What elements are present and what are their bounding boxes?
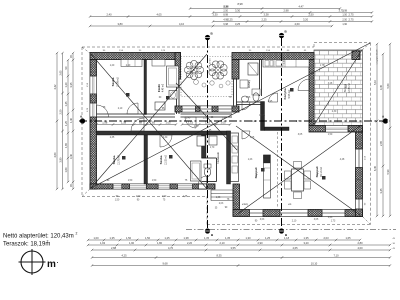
- svg-text:4,47: 4,47: [298, 5, 304, 9]
- svg-text:12,70 m2: 12,70 m2: [118, 154, 121, 165]
- svg-text:2,03: 2,03: [219, 203, 224, 205]
- svg-text:3,25: 3,25: [235, 22, 241, 26]
- svg-text:1,50: 1,50: [162, 196, 167, 198]
- section line A-A horizontal: [79, 120, 390, 122]
- svg-text:5,90: 5,90: [386, 169, 390, 175]
- svg-text:8,98: 8,98: [237, 2, 243, 6]
- svg-text:1,40: 1,40: [186, 118, 191, 120]
- section line A-A overlay: [79, 120, 390, 122]
- svg-text:12,02 m2: 12,02 m2: [165, 154, 168, 165]
- svg-text:7,10: 7,10: [333, 254, 339, 258]
- courtyard left wall upper: [175, 53, 181, 80]
- svg-text:1,05: 1,05: [165, 121, 171, 125]
- terrace sliding door: [326, 126, 349, 133]
- courtyard bottom wall: [175, 106, 239, 112]
- svg-text:Zuhany: Zuhany: [248, 79, 251, 88]
- svg-text:1,30: 1,30: [194, 126, 199, 128]
- courtyard right wall: [232, 60, 239, 80]
- svg-text:m: m: [47, 259, 56, 270]
- svg-text:1,73: 1,73: [331, 221, 336, 223]
- shower courtyard bathroom: [248, 63, 258, 75]
- svg-text:2,50: 2,50: [308, 13, 314, 17]
- wc cell walls: [202, 157, 217, 159]
- corridor top wall under courtyard: [181, 113, 233, 115]
- svg-text:1,50: 1,50: [126, 236, 132, 240]
- svg-text:14,75: 14,75: [259, 115, 265, 117]
- bathroom bottom thin wall: [237, 101, 261, 103]
- svg-text:1,30: 1,30: [245, 236, 251, 240]
- roof line D9 terrace diagonal: [314, 50, 362, 125]
- svg-text:2,25: 2,25: [227, 18, 233, 22]
- svg-text:4,48: 4,48: [340, 159, 345, 161]
- section line B-B right overlay: [281, 38, 283, 231]
- svg-text:2,50: 2,50: [223, 10, 228, 13]
- svg-text:1,50: 1,50: [152, 180, 157, 182]
- svg-text:2,50: 2,50: [59, 109, 63, 115]
- svg-text:2,03: 2,03: [323, 236, 329, 240]
- svg-text:2: 2: [47, 240, 49, 244]
- sideboard etkezo: [264, 155, 271, 198]
- svg-text:Fürdö: Fürdö: [157, 84, 161, 92]
- svg-text:1,00: 1,00: [93, 236, 99, 240]
- svg-text:4,25: 4,25: [121, 254, 127, 258]
- svg-text:9,68: 9,68: [162, 262, 168, 266]
- door left entrance: [97, 105, 109, 117]
- svg-text:3,28: 3,28: [328, 83, 333, 85]
- door room1: [127, 103, 138, 114]
- svg-text:1,50 km: 1,50 km: [210, 58, 212, 66]
- kitchen top counter: [263, 60, 309, 68]
- svg-text:1,70: 1,70: [210, 147, 215, 149]
- corridor bottom wall: [97, 131, 231, 135]
- window bottom room A right: [130, 184, 147, 189]
- svg-text:1,20: 1,20: [203, 118, 208, 120]
- dining table: [285, 162, 311, 199]
- door kitchen-etkezo: [269, 93, 278, 102]
- svg-text:6,98: 6,98: [223, 23, 228, 26]
- roof line D5 hall diagonal: [176, 83, 237, 150]
- svg-text:4,45: 4,45: [379, 84, 383, 90]
- svg-text:2,40: 2,40: [106, 13, 112, 17]
- outer wall bottom-left wing: [90, 184, 215, 189]
- section marker A left: [80, 115, 85, 124]
- svg-text:3,63: 3,63: [260, 219, 265, 221]
- outer wall top-left wing: [90, 53, 181, 60]
- svg-text:3,45: 3,45: [355, 179, 360, 181]
- wc oval: [204, 168, 210, 177]
- svg-text:1,15: 1,15: [250, 137, 255, 139]
- svg-text:1,98: 1,98: [342, 10, 347, 13]
- svg-text:1,35: 1,35: [225, 236, 231, 240]
- room B right wall: [202, 135, 207, 158]
- svg-text:2,35: 2,35: [110, 137, 115, 139]
- door courtyard hall: [185, 117, 196, 128]
- svg-text:1,10: 1,10: [205, 121, 211, 125]
- bathroom-kitchen thin wall: [259, 60, 261, 97]
- window bottom room A left: [113, 184, 122, 189]
- roof overhang dashed outline: [82, 46, 314, 48]
- svg-text:·: ·: [57, 261, 59, 267]
- svg-text:2,40: 2,40: [126, 65, 131, 67]
- section line B-B vertical left: [207, 40, 209, 231]
- courtyard window 1: [182, 106, 196, 112]
- svg-text:4,60: 4,60: [294, 22, 300, 26]
- window living bottom middle: [280, 210, 308, 217]
- svg-text:2,10: 2,10: [118, 108, 123, 110]
- svg-text:Szoba: Szoba: [111, 77, 115, 86]
- wardrobe room1: [121, 60, 142, 67]
- roof line D7 left block diagonal 2: [91, 54, 207, 188]
- tree 1: [184, 60, 203, 79]
- svg-text:1,50: 1,50: [115, 200, 120, 202]
- north symbol circle: [19, 249, 46, 275]
- svg-text:szegélykő 40x20: szegélykő 40x20: [377, 49, 379, 65]
- tree 2: [209, 61, 227, 79]
- window left wall upper: [90, 76, 97, 94]
- section marker A right: [382, 115, 388, 124]
- svg-text:3,38: 3,38: [263, 13, 269, 17]
- kitchen island: [231, 133, 239, 182]
- svg-text:2,50: 2,50: [342, 19, 347, 22]
- svg-text:4,98: 4,98: [223, 19, 228, 22]
- door bottom room B: [160, 135, 172, 147]
- svg-text:Szoba: Szoba: [159, 155, 163, 164]
- entrance steps: [211, 190, 233, 201]
- outer wall top kitchen wing: [232, 53, 314, 60]
- svg-text:1,38: 1,38: [121, 121, 127, 125]
- svg-text:4,65: 4,65: [292, 246, 298, 250]
- kitchen right wall: [309, 60, 314, 126]
- svg-text:2,98: 2,98: [283, 9, 289, 13]
- svg-text:3,05: 3,05: [314, 219, 319, 221]
- outer wall bottom living: [233, 210, 363, 217]
- courtyard window 2: [200, 106, 212, 112]
- svg-text:1,40: 1,40: [222, 118, 227, 120]
- svg-text:2,95: 2,95: [379, 140, 383, 146]
- svg-text:1,35: 1,35: [183, 196, 188, 198]
- roof line D1 left block diagonal: [91, 54, 207, 189]
- svg-text:4,42: 4,42: [53, 84, 57, 90]
- door hall-living: [242, 131, 250, 139]
- corridor top wall: [97, 113, 176, 115]
- svg-text:3,55: 3,55: [230, 246, 236, 250]
- svg-text:Nappali: Nappali: [254, 167, 258, 178]
- svg-text:1,25: 1,25: [265, 236, 271, 240]
- section line B-B left overlay: [207, 40, 209, 231]
- window bottom room B: [158, 184, 170, 189]
- svg-text:2,88: 2,88: [111, 246, 117, 250]
- svg-text:1,50: 1,50: [128, 180, 133, 182]
- svg-text:1,60: 1,60: [64, 167, 68, 173]
- sink wing1: [155, 102, 165, 110]
- svg-text:3,30: 3,30: [212, 13, 218, 17]
- section line B-B vertical right: [281, 38, 283, 231]
- window left wall corridor: [90, 103, 97, 117]
- svg-text:1,40: 1,40: [69, 117, 73, 123]
- svg-text:2,25: 2,25: [252, 121, 257, 123]
- furdo top cabinet: [152, 60, 165, 67]
- svg-text:3,20: 3,20: [303, 241, 309, 245]
- svg-text:1,20: 1,20: [64, 82, 68, 88]
- svg-text:1,50: 1,50: [145, 236, 151, 240]
- svg-text:1,35: 1,35: [303, 236, 309, 240]
- svg-text:1,20: 1,20: [110, 65, 115, 67]
- svg-text:1,38: 1,38: [216, 197, 221, 199]
- living left wall: [233, 184, 240, 216]
- svg-text:1,38: 1,38: [183, 236, 189, 240]
- svg-text:1,75: 1,75: [296, 121, 301, 123]
- window right living lower: [356, 199, 363, 209]
- svg-text:10,10: 10,10: [311, 262, 318, 266]
- svg-text:2,75: 2,75: [348, 13, 354, 17]
- terrace corner post: [352, 51, 360, 60]
- wall hall-living: [227, 131, 231, 184]
- svg-text:1,50: 1,50: [328, 134, 333, 136]
- sink courtyard bathroom: [241, 96, 248, 102]
- svg-text:4,10: 4,10: [179, 22, 185, 26]
- corridor dimension chain: [97, 124, 114, 126]
- svg-text:28,14 m2: 28,14 m2: [320, 166, 323, 177]
- svg-text:2,95: 2,95: [268, 101, 273, 103]
- svg-text:1,80: 1,80: [157, 241, 163, 245]
- wall living-terrace: [309, 126, 363, 133]
- section line C-C bottom horizontal: [186, 229, 396, 231]
- bathtub wing1: [167, 66, 179, 87]
- roof line D4 living diagonal 2: [236, 126, 360, 215]
- wc wing1: [169, 91, 177, 100]
- svg-text:3,80: 3,80: [59, 157, 63, 163]
- svg-text:2,10: 2,10: [219, 241, 225, 245]
- svg-text:1,78: 1,78: [320, 65, 325, 67]
- svg-text:5,10: 5,10: [373, 79, 377, 85]
- svg-text:1,90: 1,90: [342, 23, 347, 26]
- svg-text:1,23: 1,23: [248, 159, 253, 161]
- right dimension chains: [376, 44, 378, 121]
- bottom dimension chains: [88, 239, 104, 241]
- courtyard paving dotted edge: [181, 57, 232, 97]
- window living bottom left: [250, 210, 264, 217]
- svg-text:2,75: 2,75: [348, 18, 354, 22]
- svg-text:3,80: 3,80: [117, 22, 123, 26]
- bathroom left thin wall lower: [233, 79, 235, 106]
- entrance door opening: [198, 184, 206, 189]
- svg-text:1,15: 1,15: [188, 121, 194, 125]
- svg-text:erkély: erkély: [242, 203, 249, 206]
- svg-text:3,05: 3,05: [298, 134, 303, 136]
- etkezo corner wall horizontal: [265, 127, 290, 131]
- section marker B top right: [279, 30, 288, 39]
- roof corner diagonal dashes: [82, 47, 91, 54]
- svg-text:1,98: 1,98: [102, 121, 108, 125]
- svg-text:2: 2: [76, 232, 78, 236]
- window right living upper: [356, 149, 363, 168]
- window bottom room B right: [177, 184, 192, 189]
- svg-text:1,25: 1,25: [64, 120, 68, 126]
- door bottom room A: [131, 118, 144, 131]
- svg-text:4,45 m2: 4,45 m2: [163, 83, 165, 92]
- svg-text:2,90: 2,90: [257, 241, 263, 245]
- svg-text:2,80: 2,80: [357, 241, 363, 245]
- svg-text:1,65: 1,65: [345, 236, 351, 240]
- svg-text:1,50: 1,50: [136, 196, 141, 198]
- svg-text:8,35: 8,35: [216, 254, 222, 258]
- section marker B top left: [205, 32, 214, 41]
- terrace brick paving: [314, 50, 363, 126]
- left dimension chains: [56, 53, 58, 121]
- svg-text:2,65: 2,65: [59, 70, 63, 76]
- svg-text:1,23: 1,23: [328, 217, 333, 219]
- section marker B bottom left: [205, 228, 214, 237]
- outer wall right living: [356, 128, 363, 217]
- svg-text:4,05: 4,05: [156, 13, 162, 17]
- svg-text:3,45: 3,45: [379, 188, 383, 194]
- central bath fixtures: [191, 161, 202, 181]
- svg-text:4,60: 4,60: [53, 152, 57, 158]
- svg-text:Nappali: Nappali: [315, 166, 319, 177]
- svg-text:Szoba: Szoba: [112, 155, 116, 164]
- section marker B bottom right: [279, 228, 288, 237]
- svg-text:1,25: 1,25: [164, 236, 170, 240]
- svg-text:12,45 m2: 12,45 m2: [349, 82, 351, 92]
- top dimension chains: [190, 8, 262, 10]
- svg-text:1,90: 1,90: [129, 241, 135, 245]
- svg-text:3,35: 3,35: [69, 82, 73, 88]
- svg-text:1,65: 1,65: [64, 142, 68, 148]
- svg-text:Terasz: Terasz: [343, 83, 347, 92]
- roof line D2 long: [91, 43, 370, 188]
- shrubs: [194, 80, 199, 85]
- svg-text:2,25: 2,25: [261, 18, 267, 22]
- svg-text:2,10: 2,10: [292, 221, 297, 223]
- svg-text:3,40: 3,40: [69, 153, 73, 159]
- svg-text:4,00: 4,00: [357, 246, 363, 250]
- entrance door arc: [199, 176, 207, 184]
- svg-text:1,50 km: 1,50 km: [284, 56, 286, 64]
- door kitchen-terrace: [298, 79, 310, 91]
- label icons: [126, 93, 130, 97]
- svg-text:3,30: 3,30: [235, 9, 241, 13]
- svg-text:8,98: 8,98: [223, 14, 228, 17]
- svg-text:2,38: 2,38: [223, 6, 228, 9]
- svg-text:Nettó alapterület: 120,43m: Nettó alapterület: 120,43m: [3, 234, 74, 240]
- etkezo corner wall vertical: [261, 102, 265, 131]
- washing machine: [240, 80, 248, 88]
- svg-text:3,20: 3,20: [303, 18, 309, 22]
- door bathroom: [242, 102, 250, 110]
- svg-text:5,60: 5,60: [386, 83, 390, 89]
- wc courtyard bathroom: [252, 89, 260, 95]
- svg-text:6,45: 6,45: [373, 165, 377, 171]
- partition bottom rooms divider: [144, 135, 148, 184]
- svg-text:2,30: 2,30: [332, 111, 337, 113]
- kitchen sink bowls: [265, 61, 269, 67]
- svg-text:1,50: 1,50: [342, 14, 347, 17]
- outer wall left: [90, 60, 97, 190]
- svg-text:2,30: 2,30: [163, 137, 168, 139]
- roof line D3 living diagonal: [236, 126, 360, 215]
- svg-text:2,20: 2,20: [187, 241, 193, 245]
- svg-text:1,35: 1,35: [204, 236, 210, 240]
- courtyard left thin wall lower: [176, 79, 178, 114]
- svg-text:1,05: 1,05: [246, 97, 251, 99]
- window living bottom right: [322, 210, 345, 217]
- svg-text:1,05: 1,05: [220, 121, 226, 125]
- svg-text:4,70: 4,70: [168, 246, 174, 250]
- svg-text:1,93: 1,93: [100, 241, 106, 245]
- svg-text:1,45: 1,45: [64, 101, 68, 107]
- svg-text:erk.: erk.: [288, 203, 292, 206]
- courtyard window 3: [218, 106, 232, 112]
- partition wing1 divider: [144, 60, 147, 115]
- svg-text:Teraszok: 18,19m: Teraszok: 18,19m: [3, 242, 50, 248]
- svg-text:Közlekedö: Közlekedö: [217, 152, 220, 164]
- svg-text:11,98 m2: 11,98 m2: [117, 76, 120, 86]
- svg-text:Konyha: Konyha: [283, 88, 287, 99]
- upper cabinet dashed line: [277, 132, 279, 208]
- svg-text:1,35: 1,35: [109, 236, 115, 240]
